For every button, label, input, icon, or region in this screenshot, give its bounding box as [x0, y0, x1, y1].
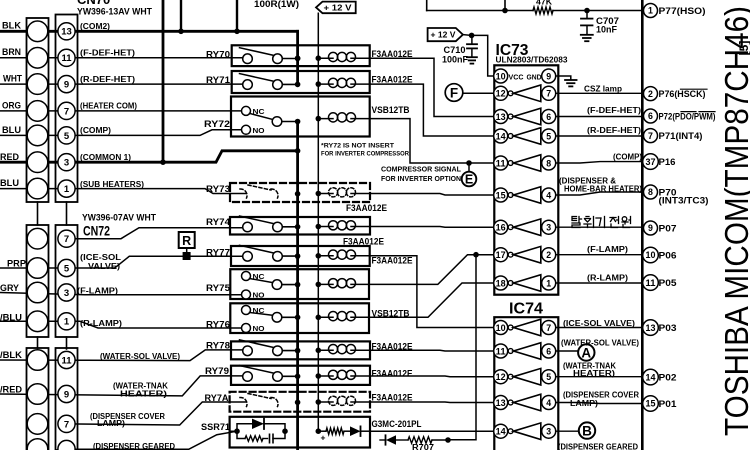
relay RY75 moving contact: [250, 279, 273, 283]
IC74 channel 14/3: [494, 424, 508, 438]
node marker F: [445, 84, 463, 102]
wire RY74 coil to IC73 pin16: [370, 226, 494, 229]
svg-text:P06: P06: [659, 251, 677, 261]
svg-text:P03: P03: [659, 323, 677, 333]
wire SSR71 LED to IC74 pin14: [370, 430, 494, 432]
svg-text:3: 3: [546, 223, 551, 233]
micom pin 11 P05: [643, 275, 659, 291]
relay RY73 coil: [329, 188, 338, 197]
micom pin 9 P07: [644, 221, 658, 235]
svg-text:[5]: [5]: [737, 41, 750, 56]
micom pin 10 P06: [643, 247, 659, 263]
junction RY79 coil bus: [316, 373, 322, 379]
svg-text:BLU: BLU: [0, 178, 19, 189]
IC74 channel 11/6: [494, 344, 508, 358]
relay RY72 box: [231, 97, 370, 137]
svg-text:+: +: [321, 433, 326, 443]
wire CN70 pin11 (F-DEF-HET) to RY70: [0, 57, 247, 59]
wire CN70 to CN72 link left: [37, 202, 39, 225]
junction RY7A coil bus: [316, 399, 322, 405]
svg-text:(F-DEF-HET): (F-DEF-HET): [80, 48, 135, 58]
svg-text:FOR INVERTER OPTION: FOR INVERTER OPTION: [381, 174, 461, 183]
wire RY79 coil to IC74 pin12: [370, 375, 494, 378]
svg-text:C710: C710: [444, 45, 466, 55]
wire RY76 coil to IC73 pin18: [369, 283, 494, 317]
relay RY7A contact: [240, 397, 247, 406]
junction RY70 common bus: [295, 56, 301, 62]
wire top feeder x505: [504, 0, 506, 11]
IC73 channel 16/3: [494, 220, 508, 234]
svg-text:GND: GND: [527, 72, 542, 81]
svg-text:15: 15: [496, 190, 506, 200]
svg-text:F3AA012E: F3AA012E: [372, 256, 413, 266]
diode bottom-left partial: [396, 439, 408, 441]
wire CN71 pin5 (DISPENSER GEARED) to SSR71: [75, 431, 237, 449]
svg-text:15: 15: [646, 399, 656, 409]
junction RY76 common bus: [295, 315, 301, 321]
svg-text:10: 10: [646, 250, 656, 260]
wire vertical feeder x163 to COMMON 1: [162, 0, 165, 162]
svg-text:12: 12: [496, 372, 506, 382]
wire RY71 coil to IC73 pin14: [370, 84, 494, 136]
wire CN70 to CN72 link right: [66, 202, 68, 225]
wire CN71 pin11 (WATER-SOL VALVE) to RY78: [0, 350, 247, 361]
junction RY78 common bus: [295, 348, 301, 354]
svg-text:(COMP): (COMP): [613, 152, 642, 162]
relay RY79 contact: [240, 366, 276, 374]
wire RY7A coil to IC74 pin13: [370, 401, 494, 404]
svg-text:16: 16: [496, 223, 506, 233]
svg-text:3: 3: [64, 288, 69, 299]
IC73 channel 11/8: [494, 156, 508, 170]
svg-text:F3AA012E: F3AA012E: [343, 237, 384, 247]
IC73 channel 14/5: [494, 129, 508, 143]
wire IC73 pin1 to MICOM P05 (R-LAMP): [556, 282, 643, 284]
svg-text:4: 4: [546, 398, 551, 408]
wire vertical feeder x237 from 100R to COM2 bus: [236, 0, 238, 31]
svg-text:COMPRESSOR SIGNAL: COMPRESSOR SIGNAL: [381, 165, 461, 174]
svg-text:11: 11: [496, 158, 506, 168]
svg-text:RY75: RY75: [206, 283, 231, 294]
resistor 47K: [533, 7, 553, 14]
junction RY74 coil bus: [316, 224, 322, 230]
svg-text:TOSHIBA MICOM(TMP87CH46): TOSHIBA MICOM(TMP87CH46): [718, 6, 750, 436]
svg-text:(INT3/TC3): (INT3/TC3): [659, 196, 709, 206]
relay RY76 NO contact: [242, 324, 251, 333]
svg-text:14: 14: [496, 131, 506, 141]
wire CN72 to CN71 link right: [66, 337, 68, 349]
SSR71 input LED branch: [318, 430, 326, 432]
wire IC74 pin6 to node A (WATER-SOL VALVE): [556, 350, 578, 352]
wire CN70 pin5 (COMP) to RY72 NO: [0, 130, 246, 136]
svg-text:F3AA012E: F3AA012E: [372, 393, 413, 403]
svg-text:2: 2: [546, 250, 551, 260]
svg-text:A: A: [581, 345, 591, 360]
junction RY73 coil bus: [316, 191, 322, 197]
wire to inverter-option marker E: [468, 163, 470, 172]
svg-text:ULN2803/TD62083: ULN2803/TD62083: [496, 55, 568, 65]
svg-text:5: 5: [64, 131, 70, 142]
svg-text:SSR71: SSR71: [201, 422, 231, 433]
wire CN72 pin1 (R-LAMP) to RY76 NO: [0, 321, 246, 328]
svg-text:17: 17: [496, 250, 506, 260]
wire IC74 pin4 to MICOM P01 (DISPENSER COVER LAMP): [556, 403, 643, 404]
wire top feeder x426: [426, 0, 428, 11]
svg-text:BRN: BRN: [2, 47, 21, 58]
junction top rail C707: [584, 8, 590, 14]
junction SSR71 coil bus: [316, 428, 322, 434]
wire RY78 coil to IC74 pin11: [370, 349, 494, 352]
relay RY71 contact: [240, 74, 276, 82]
wire common bus upper segment: [296, 31, 299, 84]
relay RY77 contact: [240, 245, 276, 253]
junction RY71 common bus: [295, 82, 301, 88]
junction SSR71 triac right: [282, 428, 288, 434]
driver IC74 box: [494, 317, 558, 450]
svg-text:1: 1: [64, 317, 70, 328]
svg-text:37: 37: [646, 157, 656, 167]
svg-text:11: 11: [646, 278, 656, 288]
relay RY78 contact: [240, 340, 276, 348]
svg-text:(F-DEF-HET): (F-DEF-HET): [587, 105, 641, 115]
svg-text:YW396-13AV WHT: YW396-13AV WHT: [77, 7, 152, 17]
wire CN71 pin7 (DISPENSER COVER LAMP) to RY7A: [66, 402, 246, 425]
svg-text:P77(HSO): P77(HSO): [659, 6, 706, 16]
svg-text:(R-LAMP): (R-LAMP): [80, 318, 122, 328]
junction RY7A common bus: [295, 400, 301, 406]
junction RY79 common bus: [295, 374, 301, 380]
relay RY70 coil: [329, 52, 338, 61]
svg-text:RY7A: RY7A: [205, 393, 229, 404]
wire IC73 pin6 to MICOM P72 (F-DEF-HET): [556, 116, 643, 118]
micom boundary line: [641, 0, 644, 450]
svg-text:P72(PDO/PWM): P72(PDO/PWM): [659, 112, 716, 122]
wire F to IC73 pin12: [463, 92, 494, 94]
svg-text:RY71: RY71: [206, 75, 231, 86]
relay RY7A coil: [329, 396, 338, 405]
relay RY73 contact: [240, 189, 247, 198]
svg-text:R: R: [182, 234, 191, 248]
junction COMMON1/feeder x163: [160, 159, 166, 165]
svg-text:(COM2): (COM2): [80, 21, 110, 31]
svg-text:VCC: VCC: [509, 72, 524, 81]
IC73 channel 13/6: [494, 110, 508, 124]
relay RY7A box: [230, 392, 370, 412]
relay RY72 NO contact: [242, 125, 251, 134]
junction COM2/feeder x237: [234, 29, 240, 35]
svg-text:9: 9: [648, 223, 653, 233]
relay RY79 coil: [329, 370, 338, 379]
svg-text:LAMP): LAMP): [570, 398, 598, 408]
svg-text:14: 14: [646, 372, 656, 382]
svg-text:CN72: CN72: [83, 224, 110, 239]
relay RY72 moving contact: [250, 113, 273, 119]
junction RY77 coil bus: [316, 253, 322, 259]
svg-text:4: 4: [546, 190, 551, 200]
svg-text:(HEATER COM): (HEATER COM): [80, 101, 137, 111]
wire RY72 coil to IC73 pin11: [370, 119, 494, 163]
svg-text:1: 1: [546, 278, 551, 288]
svg-text:(F-LAMP): (F-LAMP): [587, 244, 628, 254]
relay RY73 box: [230, 183, 370, 202]
svg-text:PRP: PRP: [7, 259, 27, 270]
svg-text:6: 6: [648, 111, 653, 121]
svg-text:(ICE-SOL VALVE): (ICE-SOL VALVE): [563, 318, 635, 328]
svg-text:5: 5: [64, 263, 70, 274]
svg-text:F: F: [450, 85, 458, 100]
svg-text:9: 9: [64, 389, 69, 400]
relay RY78 box: [231, 341, 370, 359]
micom pin 14 P02: [643, 369, 659, 385]
svg-text:9: 9: [64, 80, 69, 91]
junction RY72 common bus: [295, 119, 301, 125]
power flag +12V IC73: [428, 28, 463, 41]
junction +12V / C710: [469, 33, 475, 39]
relay RY72 NC contact: [242, 106, 251, 115]
solid-state relay SSR71 box: [230, 417, 370, 448]
svg-text:/BLK: /BLK: [0, 350, 22, 361]
junction SSR71 triac left: [234, 428, 240, 434]
relay RY75 box: [230, 269, 369, 299]
svg-text:(R-DEF-HET): (R-DEF-HET): [80, 74, 135, 84]
svg-text:P76(HSCK): P76(HSCK): [659, 89, 706, 99]
wire IC73 pin7 to MICOM P76 (CSZ lamp): [556, 92, 643, 94]
relay RY75 NC contact: [242, 272, 251, 281]
overline active-low: [681, 88, 708, 90]
IC73 channel 12/7: [494, 86, 508, 100]
wire IC74 pin5 to MICOM P02 (WATER-TNAK HEATER): [556, 376, 643, 378]
wire IC73 pin2 to MICOM P06 (F-LAMP): [556, 254, 643, 256]
svg-text:7: 7: [64, 234, 69, 245]
svg-text:10: 10: [496, 71, 506, 81]
junction RY75 coil bus: [316, 282, 322, 288]
IC74 channel 12/5: [494, 370, 508, 384]
svg-text:R707: R707: [412, 442, 434, 450]
micom pin 8 P70: [644, 185, 658, 199]
svg-text:7: 7: [648, 131, 653, 141]
driver IC73 box: [494, 65, 558, 294]
SSR71 snubber branch: [237, 431, 245, 438]
svg-text:11: 11: [496, 346, 506, 356]
svg-text:13: 13: [496, 112, 506, 122]
svg-text:8: 8: [648, 187, 653, 197]
relay RY76 box: [230, 303, 369, 333]
micom pin 1 P77(HSO): [644, 4, 658, 18]
micom pin 13 P03: [643, 320, 659, 336]
wire IC73 pin3 to MICOM P07 (deodorizer power): [556, 226, 643, 228]
svg-text:RY74: RY74: [206, 217, 231, 228]
svg-text:F3AA012E: F3AA012E: [372, 369, 413, 379]
power flag +12V top: [316, 2, 356, 14]
svg-text:7: 7: [64, 419, 69, 430]
wire RY77 coil to IC74 pin10: [370, 256, 494, 328]
wire RY70 coil to IC73 pin13: [370, 58, 494, 116]
IC74 channel 13/4: [494, 396, 508, 410]
IC73 pin10 VCC: [494, 69, 508, 83]
svg-text:11: 11: [61, 355, 72, 366]
wire pin17 node down to R707: [448, 255, 476, 440]
svg-text:6: 6: [546, 112, 551, 122]
junction RY72 coil bus: [316, 116, 322, 122]
junction RY75 common bus: [295, 282, 301, 288]
SSR71 triac branch: [230, 424, 252, 431]
wire IC74 pin7 to MICOM P03 (ICE-SOL VALVE): [556, 327, 643, 329]
IC73 channel 17/2: [494, 248, 508, 262]
junction R707 right: [445, 437, 451, 443]
svg-text:B: B: [582, 423, 592, 438]
relay RY74 box: [230, 217, 370, 235]
svg-text:CSZ lamp: CSZ lamp: [584, 83, 622, 93]
svg-text:47K: 47K: [536, 0, 553, 7]
svg-text:+ 12 V: + 12 V: [324, 3, 352, 13]
svg-text:2: 2: [648, 89, 653, 99]
svg-text:7: 7: [546, 89, 551, 99]
connector CN72 housing and pin strip: [27, 225, 49, 337]
svg-text:VALVE): VALVE): [88, 261, 120, 271]
svg-text:13: 13: [61, 27, 72, 38]
svg-text:LAMP): LAMP): [97, 418, 125, 428]
svg-text:NO: NO: [253, 291, 265, 300]
wire CN72 pin3 (F-LAMP) to RY75 NO: [0, 293, 246, 295]
micom pin 2 P76(HSCK): [644, 87, 658, 101]
junction top rail x505: [502, 8, 508, 14]
junction COM2/feeder x181: [178, 29, 184, 35]
svg-text:RED: RED: [0, 152, 19, 163]
connector CN71 housing and pin strip: [27, 348, 49, 450]
wire RY75 coil to IC73 pin17: [369, 255, 494, 285]
junction RY74 common bus: [295, 224, 301, 230]
wire RY73 coil to IC73 pin15: [370, 194, 494, 196]
svg-text:3: 3: [546, 427, 551, 437]
junction compressor-signal tap: [466, 160, 472, 166]
wire CN70 pin1 (SUB HEATERS) to RY73: [0, 189, 246, 194]
svg-text:7: 7: [64, 106, 69, 117]
svg-text:10: 10: [496, 323, 506, 333]
wire CN70 pin7 (HEATER COM) to RY72 NC: [0, 110, 246, 112]
relay RY74 coil: [329, 221, 338, 230]
svg-text:NO: NO: [253, 126, 265, 135]
junction RY77 common bus: [295, 253, 301, 259]
svg-text:5: 5: [546, 131, 551, 141]
svg-text:7: 7: [546, 323, 551, 333]
IC73 channel 15/4: [494, 188, 508, 202]
svg-text:100R(1W): 100R(1W): [254, 0, 299, 10]
svg-text:P01: P01: [659, 399, 677, 409]
junction RY78 coil bus: [316, 348, 322, 354]
svg-text:F3AA012E: F3AA012E: [346, 203, 387, 213]
relay RY76 NC contact: [242, 306, 251, 315]
relay RY79 box: [231, 366, 370, 385]
node marker E: [462, 172, 477, 187]
jumper R stem: [186, 248, 188, 252]
wire +12V flag to IC73 VCC: [463, 34, 472, 37]
svg-text:CN70: CN70: [77, 0, 110, 7]
junction RY70 coil bus: [316, 55, 322, 61]
overline active-low: [699, 111, 715, 113]
wire CN70 pin9 (R-DEF-HET) to RY71: [0, 83, 247, 85]
wire IC73 pin4 to MICOM P70: [556, 192, 643, 195]
micom pin 7 P71(INT4): [644, 129, 658, 143]
svg-text:13: 13: [646, 323, 656, 333]
wire common bus lower segment: [296, 122, 299, 450]
svg-text:14: 14: [496, 427, 506, 437]
wire vertical feeder x181 to COM2 bus: [180, 0, 182, 31]
svg-text:5: 5: [546, 372, 551, 382]
svg-text:BLK: BLK: [2, 20, 21, 31]
svg-text:(COMMON 1): (COMMON 1): [80, 152, 131, 162]
wire IC74 pin3 to node B (DISPENSER GEARED): [556, 430, 579, 432]
wire CN70 pin3 (COMMON 1) to common bus: [0, 151, 298, 162]
svg-text:1: 1: [64, 184, 70, 195]
svg-text:FOR INVERTER COMPRESSOR: FOR INVERTER COMPRESSOR: [321, 151, 409, 158]
relay RY75 coil: [329, 279, 338, 288]
svg-text:(SUB HEATERS): (SUB HEATERS): [80, 179, 144, 189]
svg-text:YW396-07AV WHT: YW396-07AV WHT: [82, 213, 156, 223]
wire CN72 pin5 (ICE-SOL VALVE) to RY77 via jumper R: [0, 256, 247, 268]
svg-text:NO: NO: [253, 324, 265, 333]
svg-text:(COMP): (COMP): [80, 125, 111, 135]
svg-text:(DISPENSER GEARED: (DISPENSER GEARED: [93, 441, 175, 450]
capacitor C707: [586, 11, 588, 19]
wire CN71 pin9 (WATER-TNAK HEATER) to RY79: [0, 376, 247, 396]
svg-text:13: 13: [496, 398, 506, 408]
junction IC73 pin17 / R707 branch: [473, 252, 479, 258]
wire CN72 pin7 to RY74: [66, 228, 247, 239]
svg-text:6: 6: [546, 346, 551, 356]
wire CN70 pin13 (COM2) bus to relay column: [0, 30, 298, 33]
junction common bus RY70: [295, 55, 301, 61]
junction RY71 coil bus: [316, 81, 322, 87]
svg-text:*RY72 IS NOT INSERT: *RY72 IS NOT INSERT: [321, 143, 395, 150]
svg-text:RY77: RY77: [206, 247, 230, 258]
relay RY72 coil: [329, 113, 338, 122]
relay RY76 moving contact: [250, 313, 273, 316]
svg-text:VSB12TB: VSB12TB: [372, 105, 410, 115]
svg-text:10nF: 10nF: [596, 25, 618, 35]
node marker A: [578, 344, 594, 360]
relay RY71 coil: [329, 78, 338, 87]
relay RY71 box: [232, 71, 370, 93]
relay RY70 box: [232, 45, 370, 66]
svg-text:/BLU: /BLU: [0, 312, 22, 323]
relay RY75 NO contact: [242, 290, 251, 299]
capacitor C710: [471, 35, 473, 43]
svg-text:GRY: GRY: [0, 283, 20, 294]
svg-text:RY70: RY70: [206, 49, 230, 60]
svg-text:18: 18: [496, 278, 506, 288]
relay RY77 box: [231, 246, 370, 266]
micom pin 15 P01: [643, 396, 659, 412]
junction RY73 common bus: [295, 191, 301, 197]
svg-text:F3AA012E: F3AA012E: [372, 75, 413, 85]
svg-text:/RED: /RED: [0, 385, 22, 396]
svg-text:HEATER): HEATER): [573, 368, 615, 378]
connector CN70 housing and pin strip: [27, 18, 49, 202]
svg-text:P16: P16: [659, 157, 676, 167]
junction common bus COMMON1: [295, 148, 301, 154]
svg-text:BLU: BLU: [2, 125, 21, 136]
micom pin 6 P72(PDO/PWM): [644, 109, 658, 123]
svg-text:P02: P02: [659, 373, 677, 383]
svg-text:11: 11: [61, 53, 72, 64]
svg-text:IC74: IC74: [509, 301, 543, 318]
jumper R box: [179, 232, 195, 248]
svg-text:RY79: RY79: [205, 366, 229, 377]
svg-text:HEATER): HEATER): [120, 388, 167, 398]
wire +12V coil bus vertical: [317, 13, 319, 431]
jumper R pellet on ICE-SOL wire: [183, 252, 191, 260]
wire IC73 pin8 to MICOM P16 (COMP): [556, 162, 643, 163]
